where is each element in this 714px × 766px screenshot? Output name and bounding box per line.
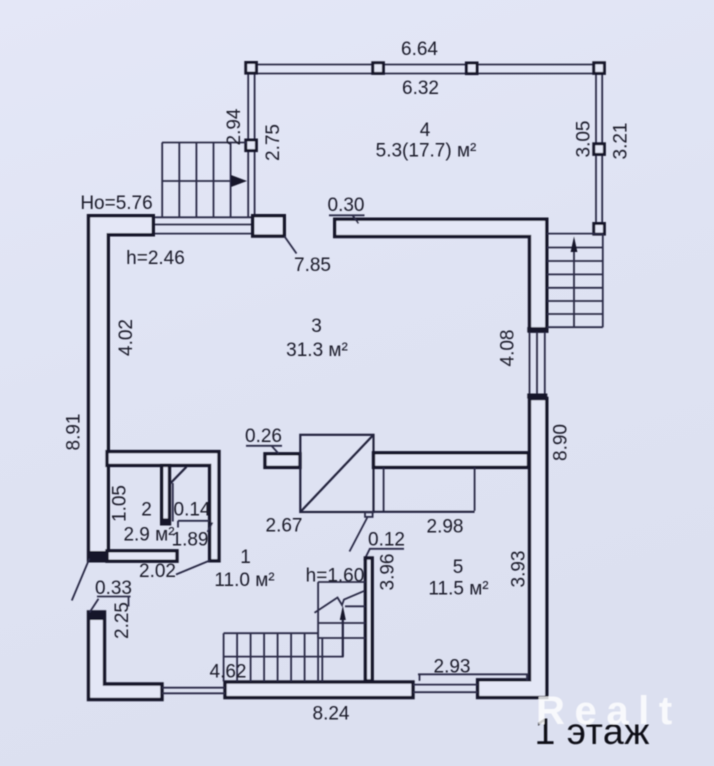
svg-text:0.26: 0.26	[245, 426, 282, 447]
svg-text:8.90: 8.90	[551, 424, 572, 461]
svg-text:31.3 м²: 31.3 м²	[286, 340, 348, 361]
bottom wall window (thin lines)	[413, 684, 478, 686]
post top-mid1	[373, 63, 384, 74]
room2 top wall + right wall	[107, 452, 219, 561]
right wall window sill cap lower	[527, 394, 547, 399]
svg-text:4.02: 4.02	[116, 319, 137, 356]
leader line to 7.85	[284, 236, 296, 253]
room2 door leaf (bottom)	[176, 561, 210, 575]
right wall window sill cap upper	[527, 327, 547, 332]
entry stairs top edge	[162, 142, 247, 144]
entry pier wall	[253, 216, 285, 236]
svg-text:3.21: 3.21	[611, 123, 632, 160]
leader 1.89	[208, 523, 213, 533]
post top-right	[594, 63, 605, 74]
svg-text:7.85: 7.85	[294, 255, 331, 276]
door leaf diagonal (open door room2)	[170, 467, 186, 484]
niche right line	[474, 467, 476, 510]
svg-text:1.89: 1.89	[172, 530, 209, 551]
post top-mid2	[466, 63, 477, 74]
front door threshold lines	[162, 687, 225, 689]
svg-text:6.64: 6.64	[401, 39, 438, 60]
svg-text:0.12: 0.12	[368, 530, 405, 551]
entry stairs risers (vertical hatch)	[161, 143, 163, 218]
bottom wall (main, under stairs)	[225, 682, 413, 698]
right exterior wall lower + bottom-right corner	[478, 399, 547, 698]
left exterior wall with top-left corner bar	[89, 216, 154, 561]
terrace right rail (double vertical)	[595, 64, 597, 228]
svg-text:h=2.46: h=2.46	[126, 248, 185, 269]
terrace top rail line lower	[249, 73, 601, 75]
top wall of room 3 + upper right wall	[335, 219, 547, 331]
svg-text:5.3(17.7) м²: 5.3(17.7) м²	[376, 141, 477, 162]
bottom-left wall top cap	[87, 611, 106, 621]
right stairs up arrow	[573, 250, 575, 327]
terrace top rail line upper	[249, 64, 601, 66]
svg-text:11.0 м²: 11.0 м²	[214, 570, 274, 591]
right stairs treads (horizontal)	[547, 233, 603, 235]
entry stairs direction arrow	[162, 180, 233, 182]
svg-text:2.94: 2.94	[224, 108, 245, 145]
svg-text:8.91: 8.91	[64, 414, 85, 451]
room2 partition wall	[162, 465, 170, 523]
junction cap left wall / room2 bottom wall	[87, 551, 107, 563]
leader from notch to 0.12	[350, 518, 368, 552]
svg-text:2.9 м²: 2.9 м²	[123, 525, 174, 546]
svg-text:2.25: 2.25	[112, 602, 133, 639]
niche left line	[383, 467, 385, 511]
doorway threshold lines	[154, 224, 253, 226]
svg-text:1: 1	[240, 547, 251, 568]
svg-text:0.30: 0.30	[328, 195, 365, 216]
svg-text:3.05: 3.05	[573, 121, 594, 158]
svg-text:2.98: 2.98	[427, 517, 464, 538]
svg-text:2.75: 2.75	[263, 124, 284, 161]
wall stub left of shaft	[265, 454, 300, 468]
0.12 leader with arrow to partition	[364, 549, 370, 560]
lower flight top edge	[224, 632, 318, 634]
svg-text:3: 3	[311, 316, 322, 337]
svg-text:4.08: 4.08	[498, 330, 519, 367]
post right-bottom	[594, 224, 605, 235]
svg-text:0.14: 0.14	[174, 500, 211, 521]
svg-text:3.96: 3.96	[378, 554, 399, 591]
bottom-left wall L-corner	[89, 612, 163, 700]
svg-text:2.67: 2.67	[266, 516, 303, 537]
svg-text:2.02: 2.02	[139, 561, 176, 582]
niche bottom line	[374, 511, 475, 513]
right wall window (3 thin lines)	[529, 332, 531, 394]
svg-text:6.32: 6.32	[402, 78, 439, 99]
right stairs outer edge	[602, 234, 604, 328]
svg-text:4.62: 4.62	[210, 662, 247, 683]
svg-text:5: 5	[453, 557, 464, 578]
terrace left rail (double vertical)	[247, 64, 249, 218]
thin partition wall rooms 1/5	[365, 558, 372, 681]
leader line to 0.33	[72, 559, 90, 601]
svg-text:h=1.60: h=1.60	[306, 566, 365, 587]
partition bottom cap	[161, 518, 171, 524]
svg-text:11.5 м²: 11.5 м²	[428, 579, 488, 600]
chimney shaft square	[300, 435, 373, 512]
notch under shaft	[365, 512, 373, 517]
room2 bottom wall	[107, 551, 177, 561]
svg-text:2: 2	[141, 500, 152, 521]
interior wall bar to right wall	[374, 453, 529, 468]
upper flight box	[318, 581, 365, 583]
post top-left	[246, 63, 257, 74]
lower flight middle line	[224, 656, 344, 658]
svg-text:Realt: Realt	[536, 689, 682, 733]
upper flight treads	[318, 622, 365, 624]
post right-mid	[594, 144, 605, 155]
svg-text:4: 4	[420, 120, 431, 141]
svg-text:1.05: 1.05	[110, 485, 131, 522]
shaft diagonal	[300, 435, 373, 512]
svg-text:3.93: 3.93	[509, 551, 530, 588]
stair break line (zigzag)	[315, 591, 365, 613]
svg-text:8.24: 8.24	[313, 704, 350, 725]
entry stairs bottom line	[150, 216, 256, 218]
stairs up arrow	[342, 618, 344, 657]
post left-mid	[246, 140, 257, 151]
lower flight risers	[223, 633, 225, 681]
svg-text:Ho=5.76: Ho=5.76	[80, 193, 152, 214]
